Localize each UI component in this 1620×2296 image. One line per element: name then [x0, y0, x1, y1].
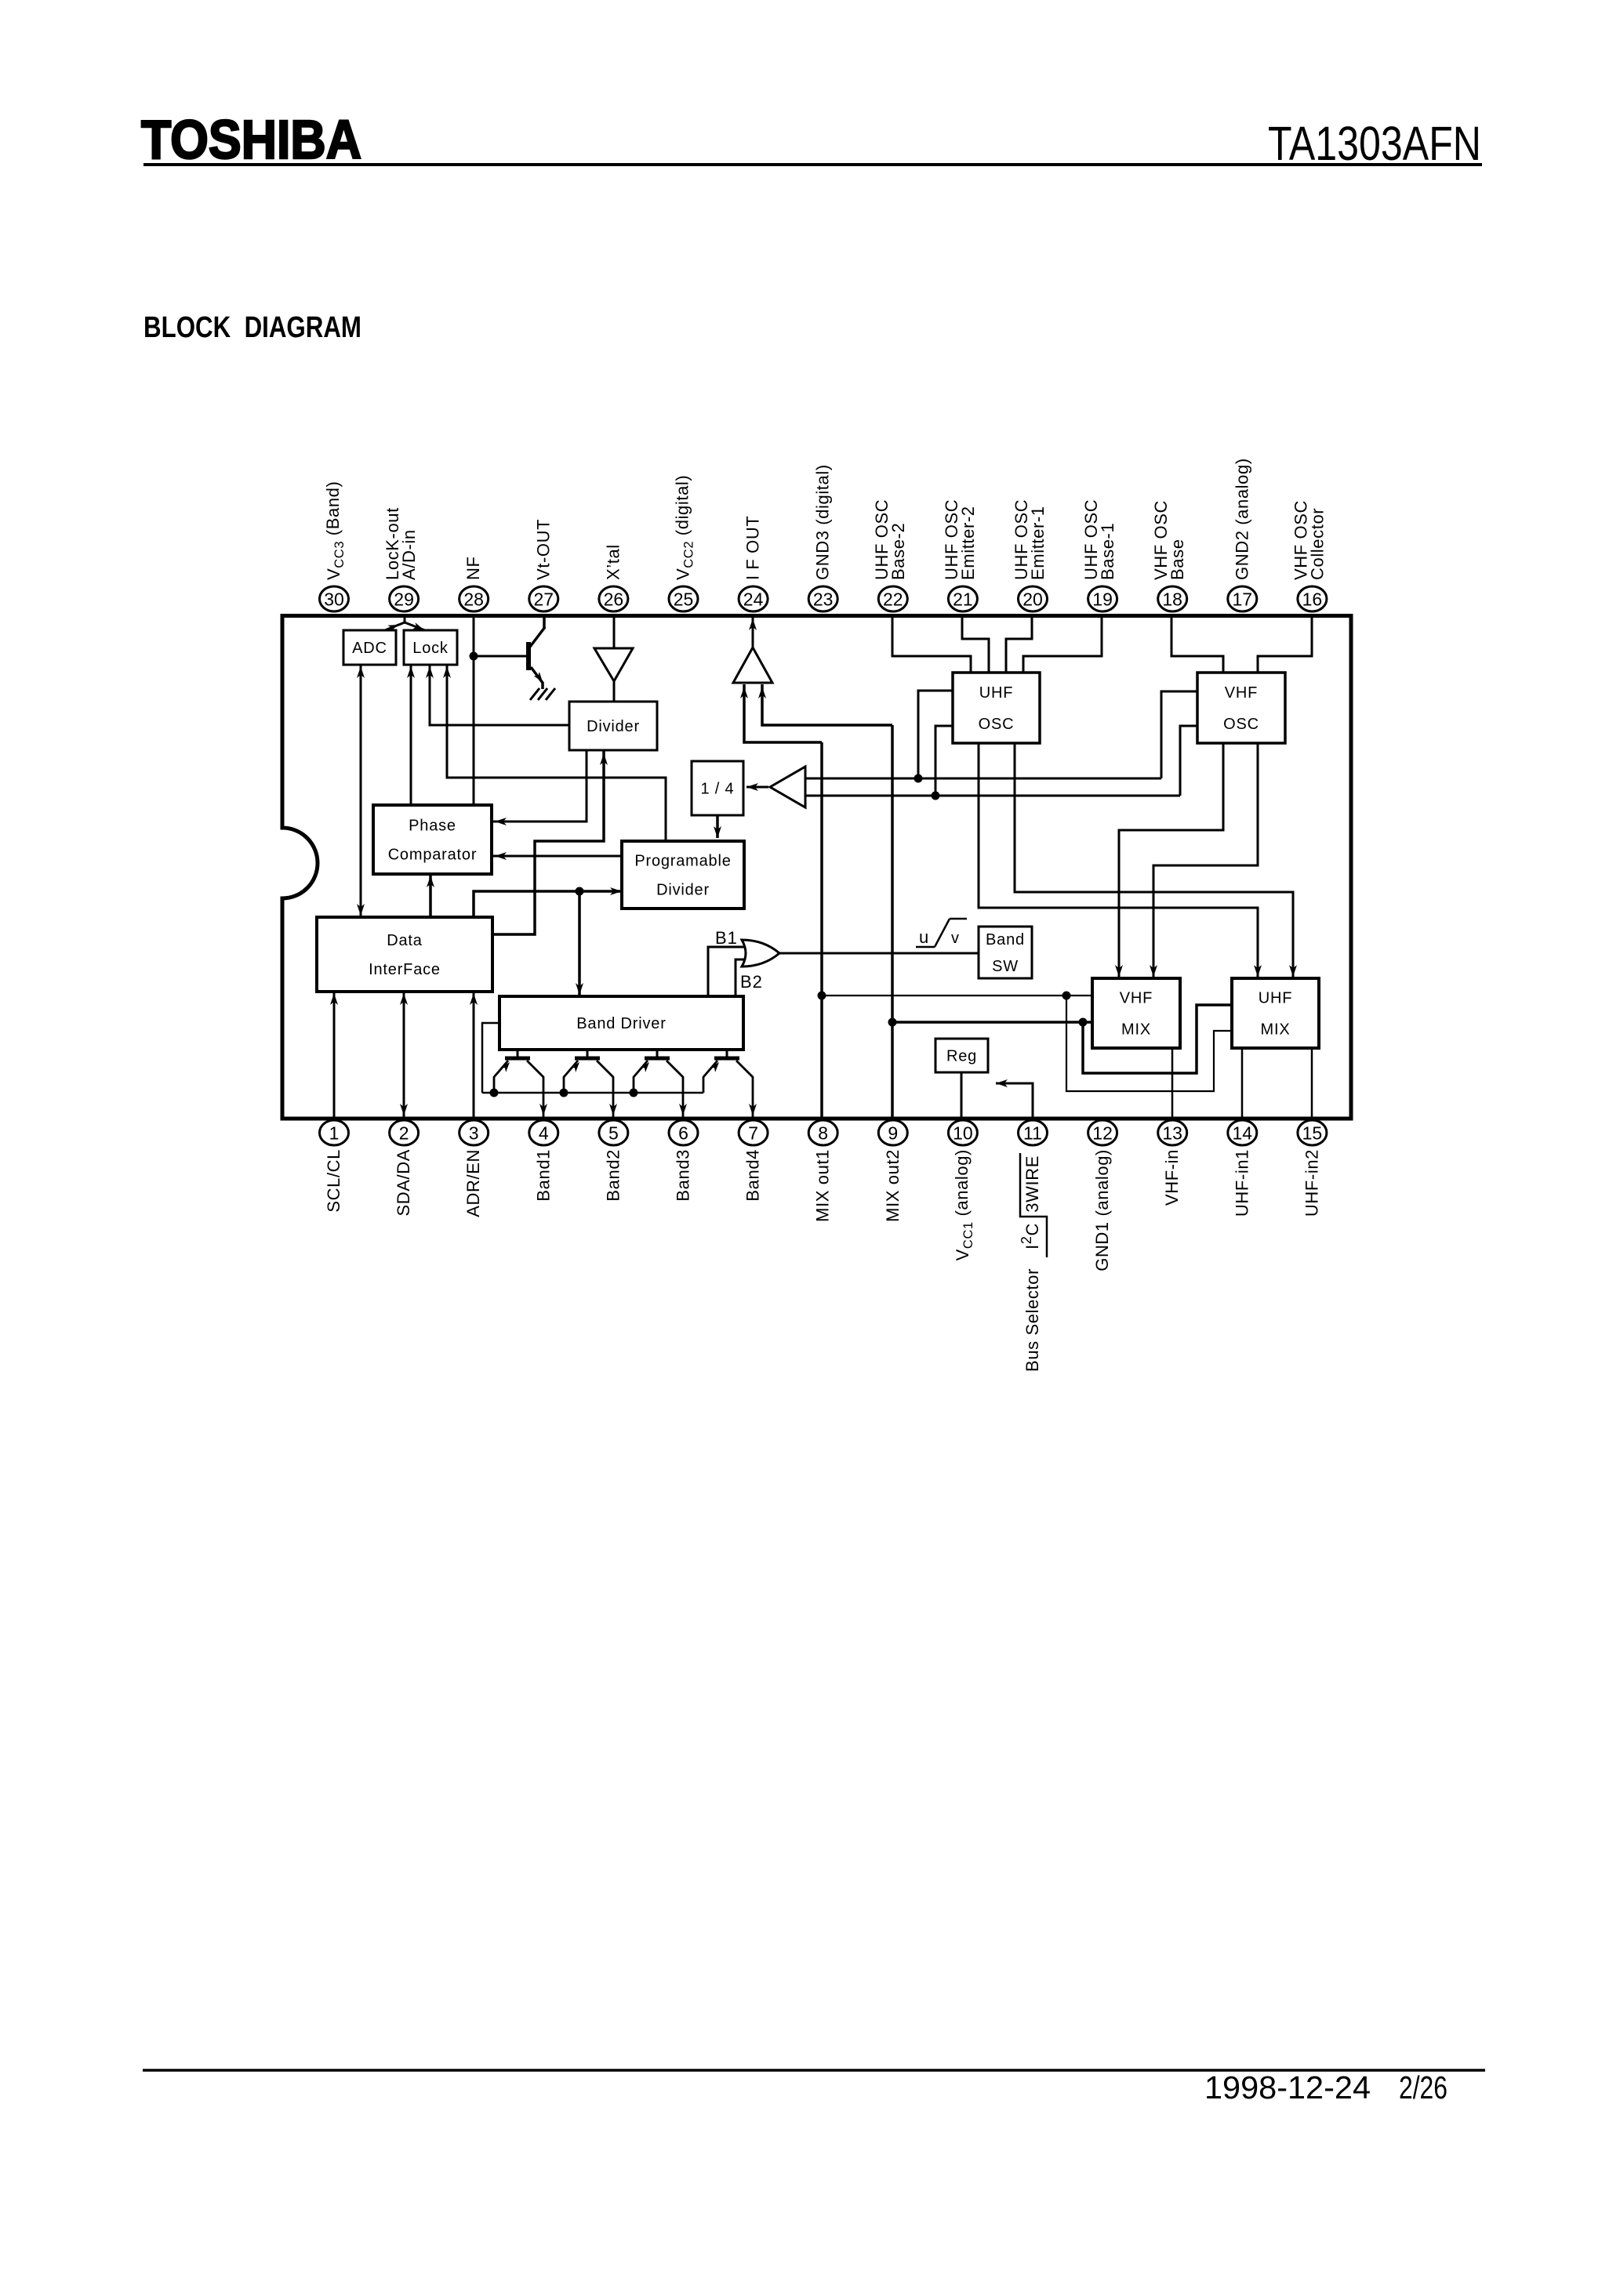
svg-text:16: 16: [1302, 589, 1323, 610]
svg-text:ADC: ADC: [352, 640, 387, 657]
svg-text:6: 6: [678, 1123, 688, 1144]
svg-text:18: 18: [1162, 589, 1182, 610]
svg-text:21: 21: [953, 589, 973, 610]
svg-text:Band2: Band2: [603, 1149, 623, 1202]
svg-text:Divider: Divider: [656, 882, 710, 899]
svg-text:Lock: Lock: [412, 640, 449, 657]
svg-text:B1: B1: [715, 928, 738, 948]
svg-text:MIX out1: MIX out1: [813, 1149, 833, 1222]
svg-text:28: 28: [463, 589, 484, 610]
svg-text:30: 30: [324, 589, 344, 610]
svg-text:u: u: [919, 927, 928, 947]
svg-text:BLOCK DIAGRAM: BLOCK DIAGRAM: [143, 311, 361, 344]
svg-text:VHF-in: VHF-in: [1162, 1149, 1182, 1206]
svg-text:Divider: Divider: [587, 718, 640, 735]
svg-text:I2C: I2C: [1019, 1223, 1042, 1250]
svg-text:17: 17: [1233, 589, 1253, 610]
svg-text:UHF-in2: UHF-in2: [1302, 1149, 1321, 1217]
svg-text:Reg: Reg: [946, 1048, 977, 1065]
svg-text:SW: SW: [992, 958, 1019, 975]
svg-text:Bus Selector: Bus Selector: [1022, 1268, 1042, 1372]
svg-text:8: 8: [818, 1123, 828, 1144]
svg-text:Phase: Phase: [409, 818, 456, 835]
svg-text:VHF: VHF: [1120, 990, 1153, 1007]
svg-text:11: 11: [1023, 1123, 1042, 1144]
svg-text:13: 13: [1162, 1123, 1182, 1144]
svg-text:19: 19: [1092, 589, 1113, 610]
svg-text:B2: B2: [740, 972, 763, 992]
svg-text:MIX: MIX: [1261, 1021, 1291, 1039]
svg-text:14: 14: [1233, 1123, 1253, 1144]
svg-text:Base-1: Base-1: [1098, 523, 1117, 580]
svg-text:GND1 (analog): GND1 (analog): [1092, 1149, 1112, 1271]
svg-text:1 / 4: 1 / 4: [701, 781, 735, 798]
svg-text:3WIRE: 3WIRE: [1022, 1155, 1042, 1213]
svg-text:OSC: OSC: [1223, 716, 1259, 733]
svg-text:I F OUT: I F OUT: [743, 516, 763, 580]
svg-text:4: 4: [539, 1123, 549, 1144]
svg-text:Band: Band: [986, 931, 1025, 949]
svg-text:23: 23: [813, 589, 834, 610]
svg-text:9: 9: [888, 1123, 898, 1144]
svg-text:22: 22: [883, 589, 903, 610]
svg-text:29: 29: [394, 589, 414, 610]
svg-text:Data: Data: [387, 932, 423, 949]
svg-text:Collector: Collector: [1307, 508, 1327, 580]
svg-text:10: 10: [953, 1123, 973, 1144]
svg-text:GND2 (analog): GND2 (analog): [1232, 458, 1251, 580]
svg-text:SDA/DA: SDA/DA: [394, 1149, 413, 1217]
svg-text:20: 20: [1022, 589, 1043, 610]
svg-text:SCL/CL: SCL/CL: [324, 1149, 343, 1213]
svg-text:InterFace: InterFace: [369, 961, 441, 978]
svg-text:UHF: UHF: [979, 684, 1014, 702]
svg-text:A/D-in: A/D-in: [399, 529, 419, 580]
svg-text:UHF-in1: UHF-in1: [1232, 1149, 1251, 1217]
svg-text:ADR/EN: ADR/EN: [463, 1149, 483, 1217]
svg-text:7: 7: [748, 1123, 758, 1144]
svg-text:TOSHIBA: TOSHIBA: [141, 109, 361, 170]
svg-text:27: 27: [534, 589, 554, 610]
svg-text:Base: Base: [1168, 539, 1187, 580]
svg-text:Band3: Band3: [674, 1149, 693, 1202]
svg-text:Emitter-2: Emitter-2: [958, 506, 978, 580]
svg-text:GND3 (digital): GND3 (digital): [813, 464, 833, 580]
svg-text:Comparator: Comparator: [388, 847, 478, 864]
svg-text:Emitter-1: Emitter-1: [1028, 506, 1048, 580]
svg-text:2/26: 2/26: [1399, 2069, 1447, 2106]
svg-text:25: 25: [674, 589, 694, 610]
svg-text:OSC: OSC: [979, 716, 1015, 733]
svg-text:24: 24: [743, 589, 764, 610]
svg-text:1: 1: [329, 1123, 340, 1144]
svg-text:TA1303AFN: TA1303AFN: [1268, 117, 1481, 170]
svg-text:X’tal: X’tal: [603, 544, 623, 580]
svg-text:Band Driver: Band Driver: [576, 1015, 666, 1032]
svg-text:Band4: Band4: [743, 1149, 763, 1202]
svg-text:NF: NF: [463, 556, 483, 580]
svg-text:Programable: Programable: [634, 853, 731, 870]
svg-text:MIX: MIX: [1121, 1021, 1151, 1039]
svg-text:UHF: UHF: [1259, 990, 1293, 1007]
svg-text:3: 3: [469, 1123, 479, 1144]
svg-text:1998-12-24: 1998-12-24: [1204, 2069, 1371, 2106]
svg-text:VHF: VHF: [1225, 684, 1258, 702]
svg-text:15: 15: [1302, 1123, 1323, 1144]
svg-text:Band1: Band1: [533, 1149, 553, 1202]
svg-text:12: 12: [1092, 1123, 1113, 1144]
svg-text:Base-2: Base-2: [888, 523, 908, 580]
svg-text:5: 5: [608, 1123, 619, 1144]
svg-text:v: v: [951, 930, 959, 947]
svg-text:MIX out2: MIX out2: [883, 1149, 903, 1222]
svg-text:Vt-OUT: Vt-OUT: [533, 519, 553, 580]
svg-text:2: 2: [399, 1123, 409, 1144]
svg-text:26: 26: [604, 589, 624, 610]
